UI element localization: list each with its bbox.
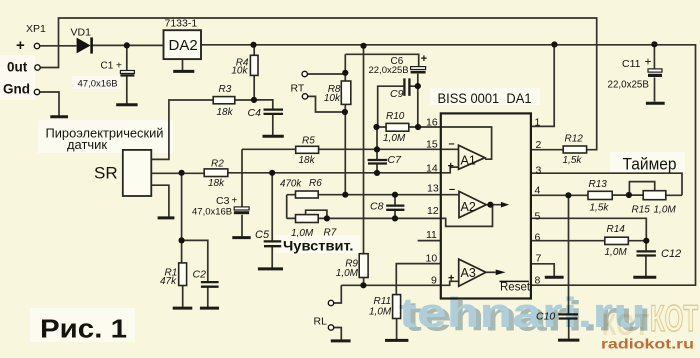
svg-text:18k: 18k: [299, 155, 316, 166]
svg-text:SR: SR: [94, 164, 118, 183]
svg-text:+: +: [645, 55, 652, 69]
svg-text:RT: RT: [291, 83, 305, 95]
svg-text:3: 3: [536, 164, 542, 176]
svg-text:DA2: DA2: [169, 37, 198, 54]
svg-text:Таймер: Таймер: [623, 155, 677, 173]
svg-text:10: 10: [426, 252, 438, 264]
svg-text:Gnd: Gnd: [3, 82, 30, 97]
svg-text:BISS 0001 DA1: BISS 0001 DA1: [438, 91, 532, 106]
svg-text:R14: R14: [607, 224, 626, 235]
svg-text:C1: C1: [101, 61, 114, 72]
svg-text:R12: R12: [565, 133, 584, 144]
svg-text:Рис. 1: Рис. 1: [40, 316, 127, 344]
svg-text:R15: R15: [632, 204, 651, 215]
svg-text:R3: R3: [219, 84, 232, 95]
svg-text:+: +: [421, 53, 428, 65]
svg-text:tehnari.ru: tehnari.ru: [399, 289, 646, 336]
svg-text:10k: 10k: [231, 66, 248, 77]
svg-text:Чувствит.: Чувствит.: [283, 239, 354, 254]
svg-text:22,0x25В: 22,0x25В: [608, 79, 650, 90]
svg-text:14: 14: [426, 163, 438, 175]
svg-text:R2: R2: [211, 158, 224, 169]
svg-text:C7: C7: [388, 154, 403, 166]
svg-text:8: 8: [535, 274, 541, 286]
svg-text:C2: C2: [193, 269, 207, 281]
svg-text:1,0M: 1,0M: [369, 307, 392, 318]
svg-text:C5: C5: [255, 229, 270, 241]
svg-text:R6: R6: [309, 178, 322, 189]
svg-text:1,0M: 1,0M: [654, 204, 677, 215]
svg-text:A1: A1: [461, 154, 476, 168]
svg-text:1,0M: 1,0M: [336, 268, 359, 279]
svg-text:47,0x16В: 47,0x16В: [78, 79, 118, 90]
svg-text:13: 13: [427, 182, 439, 194]
svg-text:R13: R13: [589, 179, 608, 190]
svg-text:9: 9: [431, 274, 437, 286]
svg-text:5: 5: [535, 210, 541, 222]
svg-text:КОТ: КОТ: [650, 298, 698, 339]
svg-text:+: +: [116, 61, 122, 72]
svg-text:1,0M: 1,0M: [291, 228, 314, 239]
svg-text:–: –: [449, 138, 455, 150]
svg-text:22,0x25В: 22,0x25В: [369, 65, 409, 76]
svg-text:7: 7: [536, 253, 542, 265]
svg-text:1: 1: [535, 117, 541, 129]
svg-text:47k: 47k: [160, 276, 177, 287]
svg-text:R11: R11: [374, 296, 392, 307]
svg-text:+: +: [448, 273, 454, 285]
svg-text:1,0M: 1,0M: [383, 133, 406, 144]
svg-text:4: 4: [535, 184, 541, 196]
svg-text:2: 2: [536, 139, 542, 151]
svg-text:VD1: VD1: [71, 27, 92, 39]
svg-text:radiokot.ru: radiokot.ru: [601, 336, 694, 352]
svg-text:C9: C9: [390, 88, 404, 100]
svg-text:+: +: [232, 196, 238, 207]
svg-text:10k: 10k: [324, 93, 341, 104]
svg-text:датчик: датчик: [67, 137, 107, 152]
svg-text:16: 16: [426, 117, 438, 129]
svg-text:6: 6: [535, 231, 541, 243]
svg-text:7133-1: 7133-1: [165, 17, 198, 29]
svg-text:18k: 18k: [217, 107, 234, 118]
svg-text:RL: RL: [314, 316, 328, 328]
svg-text:C11: C11: [622, 58, 641, 70]
svg-text:1,5k: 1,5k: [563, 155, 583, 166]
svg-text:15: 15: [426, 138, 438, 150]
svg-text:11: 11: [426, 229, 437, 241]
svg-text:R10: R10: [386, 111, 405, 122]
svg-text:12: 12: [427, 205, 439, 217]
svg-text:C8: C8: [370, 201, 384, 213]
svg-text:1,5k: 1,5k: [590, 202, 610, 213]
svg-text:A2: A2: [461, 200, 476, 214]
svg-text:47,0x16В: 47,0x16В: [192, 206, 232, 217]
svg-text:A3: A3: [461, 266, 476, 280]
svg-text:R5: R5: [302, 136, 315, 147]
svg-text:470k: 470k: [280, 179, 302, 190]
svg-text:+: +: [448, 161, 454, 173]
svg-text:C12: C12: [661, 248, 681, 260]
svg-text:0ut: 0ut: [7, 60, 28, 75]
svg-text:18k: 18k: [208, 178, 225, 189]
svg-text:C3: C3: [216, 195, 230, 207]
svg-text:+: +: [16, 37, 25, 54]
svg-text:XP1: XP1: [26, 23, 46, 35]
svg-text:R7: R7: [324, 227, 337, 238]
svg-text:1,0M: 1,0M: [605, 247, 628, 258]
svg-text:–: –: [449, 184, 455, 196]
svg-text:C4: C4: [248, 107, 262, 119]
